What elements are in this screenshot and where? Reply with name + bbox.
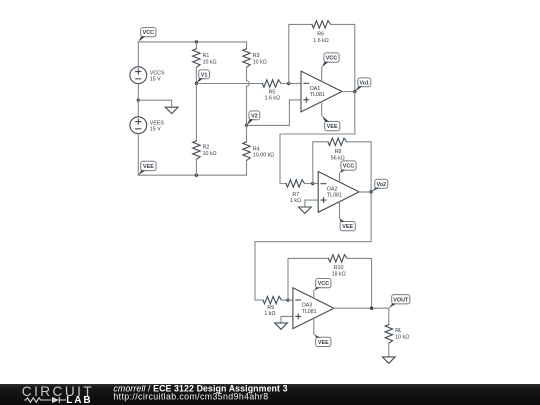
junction: node Vo2: [369, 190, 372, 193]
resistor R8 56 kΩ: [328, 138, 347, 161]
svg-text:10 kΩ: 10 kΩ: [253, 59, 267, 65]
svg-text:VCC: VCC: [326, 56, 337, 62]
wire: R6 to Vo1 rail: [331, 24, 355, 91]
svg-text:http://circuitlab.com/cm35nd9h: http://circuitlab.com/cm35nd9h4ahr8: [113, 391, 268, 401]
svg-text:V2: V2: [251, 113, 258, 119]
svg-text:VCC: VCC: [143, 30, 154, 36]
wire: VCCS to ground tee: [137, 84, 139, 101]
wire hop: R3 column over V1–R5 wire (no connection): [247, 81, 250, 87]
junction: ground tee on left rail: [137, 99, 140, 102]
svg-text:TL081: TL081: [302, 309, 317, 315]
junction: output / R10 rail: [370, 307, 373, 310]
wire: OA2 VCC pin: [339, 173, 341, 182]
ground symbol (left rail): [165, 107, 178, 113]
svg-text:VCCS: VCCS: [150, 70, 165, 76]
svg-text:R8: R8: [335, 149, 342, 155]
wire: tee to VEES: [137, 100, 139, 117]
svg-text:1.6 kΩ: 1.6 kΩ: [313, 38, 328, 44]
svg-text:10 kΩ: 10 kΩ: [203, 151, 217, 157]
wire: OA3 output to VOUT: [334, 307, 389, 309]
svg-text:1 kΩ: 1 kΩ: [264, 311, 275, 317]
svg-text:Vo2: Vo2: [377, 182, 387, 188]
svg-text:15 V: 15 V: [150, 127, 161, 133]
op-amp OA2 TL081: [318, 172, 359, 213]
net label VEE (supply flag, bottom left): [138, 161, 156, 175]
wire: bottom horizontal bus: [138, 174, 246, 176]
wire: OA1 output to node Vo1: [342, 91, 355, 93]
wire: R10 to output rail: [347, 258, 372, 308]
wire: OA3 + input to ground: [281, 316, 293, 323]
net label VEE (OA1 supply pin): [322, 116, 340, 131]
net label VCC (supply flag, top left): [138, 28, 156, 42]
svg-text:10.00 kΩ: 10.00 kΩ: [253, 153, 274, 159]
svg-text:VCC: VCC: [318, 281, 329, 287]
svg-text:OA1: OA1: [310, 86, 321, 92]
wire: top bus corner to R3: [246, 42, 248, 49]
svg-text:R2: R2: [203, 145, 210, 151]
wire: node to OA3 − input: [288, 299, 293, 301]
wire: feedback left rail up to R6: [289, 24, 312, 83]
wire: Vo2 down-link to R9: [255, 192, 371, 300]
junction: node V2: [245, 124, 248, 127]
wire: node to OA2 − input: [313, 183, 318, 185]
junction: top bus / R1: [195, 40, 198, 43]
wire: V2 to R4: [246, 125, 248, 141]
svg-text:R7: R7: [292, 192, 299, 198]
wire: VOUT to RL: [388, 308, 390, 324]
svg-text:R6: R6: [317, 32, 324, 38]
svg-text:VOUT: VOUT: [393, 297, 409, 303]
svg-text:VEE: VEE: [143, 164, 154, 170]
junction: OA1 inverting input node: [287, 82, 290, 85]
svg-text:1.6 kΩ: 1.6 kΩ: [265, 96, 280, 102]
wire: R8 to Vo2 rail: [347, 142, 372, 192]
svg-text:VEE: VEE: [327, 124, 338, 130]
resistor R3 10 kΩ: [243, 49, 267, 68]
wire: feedback left rail up to R10: [288, 258, 329, 300]
resistor R2 10 kΩ: [193, 141, 217, 160]
svg-text:R5: R5: [269, 89, 276, 95]
wire: R4 to bottom bus: [246, 161, 248, 176]
voltage source VEES 15 V: [130, 117, 164, 134]
ground symbol (OA3 non-inverting input): [275, 323, 288, 329]
svg-text:R4: R4: [253, 146, 260, 152]
svg-text:OA2: OA2: [327, 186, 338, 192]
wire: OA3 VEE pin: [313, 318, 315, 334]
op-amp OA1 TL081: [301, 71, 342, 112]
junction: bottom bus / R2: [195, 174, 198, 177]
svg-text:R3: R3: [253, 53, 260, 59]
wire: OA1 VCC pin: [321, 67, 323, 81]
junction: OA3 inverting input node: [286, 298, 289, 301]
wire: feedback left rail up to R8: [313, 142, 328, 184]
svg-text:VEE: VEE: [342, 224, 353, 230]
wire: node to OA1 − input: [289, 83, 301, 85]
wire: top horizontal bus: [138, 41, 246, 43]
wire: OA1 VEE pin: [321, 102, 323, 116]
footer attribution bar: [0, 384, 540, 405]
CircuitLab logo: [22, 384, 94, 405]
svg-text:RL: RL: [395, 328, 402, 334]
net label Vo2: [371, 179, 388, 192]
resistor R6 1.6 kΩ: [312, 21, 331, 44]
net label VCC (OA2 supply pin): [340, 161, 357, 173]
net label V1: [196, 70, 209, 84]
svg-text:VEES: VEES: [150, 120, 165, 126]
wire: RL to ground: [388, 343, 390, 357]
svg-text:LAB: LAB: [66, 395, 92, 405]
wire: R1 to node V1: [195, 67, 197, 83]
attribution text: [113, 383, 287, 401]
resistor R1 10 kΩ: [193, 49, 217, 68]
resistor RL 10 kΩ: [385, 325, 409, 344]
wire: V1 to R2: [195, 84, 197, 141]
resistor R9 1 kΩ: [263, 296, 282, 317]
svg-text:V1: V1: [201, 72, 208, 78]
wire: V2 to OA1 + input: [247, 100, 302, 126]
net label VEE (OA2 supply pin): [339, 218, 355, 231]
svg-text:1 kΩ: 1 kΩ: [290, 198, 301, 204]
wire: OA2 + input to ground: [305, 200, 318, 207]
svg-text:VEE: VEE: [318, 340, 329, 346]
ground symbol (OA2 non-inverting input): [299, 207, 312, 213]
svg-text:TL081: TL081: [310, 92, 325, 98]
net label V2: [247, 111, 260, 126]
svg-text:18 kΩ: 18 kΩ: [332, 272, 346, 278]
net label VOUT: [389, 295, 410, 309]
net label Vo1: [355, 78, 371, 92]
svg-text:R1: R1: [203, 53, 210, 59]
resistor R5 1.6 kΩ: [262, 80, 281, 102]
junction: node Vo1: [353, 90, 356, 93]
svg-text:TL081: TL081: [327, 193, 342, 199]
svg-text:Vo1: Vo1: [360, 81, 370, 87]
wire: R5 to OA1 inverting node: [281, 83, 289, 85]
net label VCC (OA1 supply pin): [322, 53, 339, 68]
wire: VEES to bottom bus corner: [137, 134, 139, 176]
wire: R9 to OA3 inverting node: [282, 299, 288, 301]
svg-text:10 kΩ: 10 kΩ: [395, 334, 409, 340]
ground symbol (load): [382, 357, 395, 363]
wire: R7 to OA2 inverting node: [305, 183, 313, 185]
net label VEE (OA3 supply pin): [314, 334, 331, 346]
svg-text:10 kΩ: 10 kΩ: [203, 59, 217, 65]
svg-text:R10: R10: [334, 265, 344, 271]
svg-text:R9: R9: [267, 305, 274, 311]
resistor R4 10.00 kΩ: [243, 142, 274, 161]
wire: top bus to R1: [195, 42, 197, 49]
svg-text:15 V: 15 V: [150, 77, 161, 83]
wire: R2 to bottom bus: [195, 159, 197, 175]
wire: Vo1 down-link to R7: [280, 92, 355, 184]
junction: OA2 inverting input node: [311, 182, 314, 185]
wire: hop to node V2: [246, 86, 248, 125]
resistor R10 18 kΩ: [329, 255, 348, 278]
wire: V1 to R5: [196, 83, 262, 85]
wire: VCC flag to top bus corner: [137, 42, 139, 67]
wire: OA2 VEE pin: [339, 202, 341, 218]
wire: OA3 VCC pin: [313, 291, 315, 298]
wire: ground branch: [138, 100, 171, 107]
junction: node V1: [195, 82, 198, 85]
wire: R3 to crossover hop: [246, 67, 248, 80]
resistor R7 1 kΩ: [286, 180, 305, 204]
net label VCC (OA3 supply pin): [314, 279, 331, 291]
wire: OA2 output to node Vo2: [359, 191, 371, 193]
svg-text:VCC: VCC: [343, 164, 354, 170]
svg-text:OA3: OA3: [302, 303, 313, 309]
op-amp OA3 TL081: [293, 288, 334, 329]
voltage source VCCS 15 V: [130, 67, 165, 84]
